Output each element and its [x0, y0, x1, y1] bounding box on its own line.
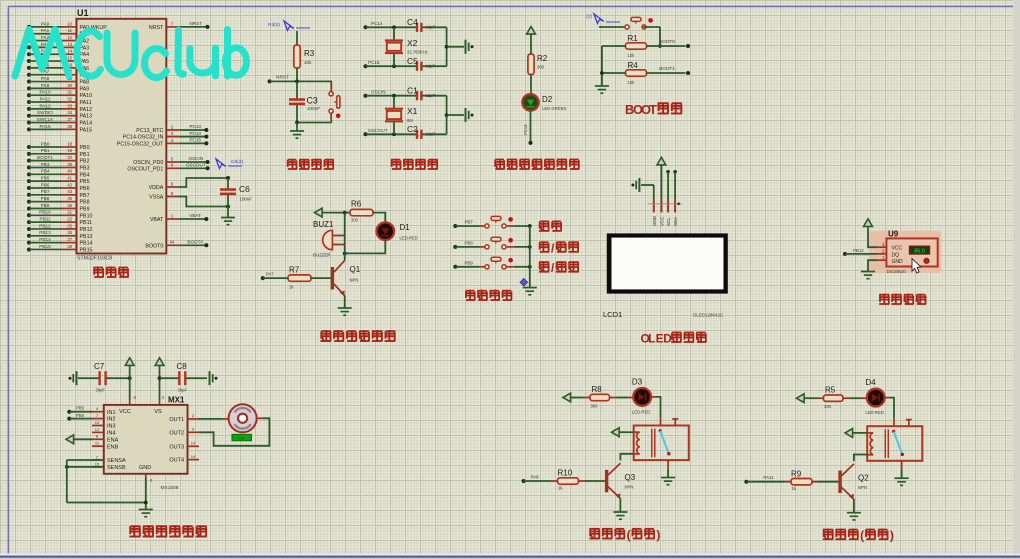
svg-text:GND: GND — [892, 259, 904, 265]
svg-text:C1: C1 — [407, 86, 418, 96]
svg-text:39: 39 — [67, 162, 72, 167]
svg-text:C8: C8 — [177, 362, 188, 371]
svg-text:): ) — [890, 529, 894, 543]
svg-text:PB6: PB6 — [41, 182, 50, 187]
svg-text:100nF: 100nF — [240, 197, 253, 202]
svg-text:NRST: NRST — [276, 75, 289, 81]
svg-text:LED-RED: LED-RED — [632, 410, 650, 415]
svg-text:OSCIN: OSCIN — [371, 89, 386, 94]
svg-text:X2: X2 — [407, 38, 418, 48]
svg-text:28: 28 — [67, 244, 72, 249]
svg-text:300: 300 — [537, 65, 545, 70]
svg-text:T: T — [649, 102, 657, 117]
svg-text:PB5: PB5 — [76, 405, 85, 410]
svg-text:VBAT: VBAT — [150, 217, 164, 223]
svg-text:PA11: PA11 — [40, 96, 51, 101]
svg-text:C2: C2 — [407, 124, 418, 134]
svg-text:C3: C3 — [307, 95, 318, 105]
svg-text:12pF: 12pF — [426, 63, 436, 68]
svg-text:PA13: PA13 — [80, 114, 93, 120]
svg-text:R9: R9 — [791, 469, 802, 478]
svg-text:PB8: PB8 — [80, 200, 90, 206]
svg-text:R3: R3 — [304, 49, 315, 58]
svg-text:C6(2): C6(2) — [231, 159, 243, 165]
svg-text:MX1: MX1 — [168, 396, 185, 405]
svg-text:PC13: PC13 — [523, 124, 528, 135]
svg-text:STM32F103C8: STM32F103C8 — [77, 256, 112, 262]
svg-text:R8: R8 — [592, 385, 603, 394]
svg-text:PA15: PA15 — [80, 127, 93, 133]
svg-text:45: 45 — [67, 196, 72, 201]
svg-text:GND: GND — [139, 465, 151, 471]
svg-text:DS18B20: DS18B20 — [887, 269, 907, 274]
svg-text:PC15: PC15 — [368, 60, 380, 65]
svg-text:PB12: PB12 — [853, 248, 864, 253]
svg-text:IN3: IN3 — [107, 424, 116, 430]
svg-text:C6: C6 — [239, 184, 250, 194]
svg-text:PC13: PC13 — [189, 124, 201, 129]
svg-text:R3(2): R3(2) — [268, 22, 280, 28]
svg-text:BOOT0: BOOT0 — [145, 243, 163, 249]
svg-text:BOOT0: BOOT0 — [659, 39, 675, 44]
svg-text:PB8: PB8 — [41, 196, 50, 201]
svg-text:42: 42 — [67, 182, 72, 187]
svg-text:14: 14 — [67, 49, 72, 54]
svg-text:PB11: PB11 — [39, 217, 51, 222]
svg-text:85.0: 85.0 — [914, 249, 925, 255]
svg-text:PB7: PB7 — [80, 193, 90, 199]
svg-text:ENA: ENA — [107, 437, 119, 443]
svg-text:PB4: PB4 — [41, 169, 50, 174]
svg-text:PB6: PB6 — [80, 186, 90, 192]
svg-text:PB11: PB11 — [80, 220, 93, 226]
svg-text:10: 10 — [95, 420, 100, 425]
svg-text:VCC: VCC — [892, 246, 903, 252]
svg-text:L: L — [648, 332, 655, 346]
svg-text:300: 300 — [824, 404, 832, 409]
svg-text:PB6: PB6 — [76, 413, 85, 418]
svg-text:PB8: PB8 — [464, 241, 473, 246]
svg-text:(1): (1) — [586, 14, 592, 20]
svg-text:R6: R6 — [351, 200, 362, 209]
svg-text:Q3: Q3 — [625, 473, 636, 482]
svg-text:PC14-OSC32_IN: PC14-OSC32_IN — [123, 135, 164, 141]
svg-text:PB14: PB14 — [39, 237, 51, 242]
svg-text:LED-GREEN: LED-GREEN — [542, 106, 566, 111]
svg-text:PA15: PA15 — [39, 124, 51, 129]
svg-text:OSCOUT: OSCOUT — [186, 163, 206, 168]
svg-text:R7: R7 — [289, 266, 300, 275]
svg-text:SWDIO: SWDIO — [37, 110, 53, 115]
svg-text:IN1: IN1 — [107, 410, 116, 416]
svg-text:PA8: PA8 — [531, 474, 540, 479]
svg-text:SWCLK: SWCLK — [37, 117, 55, 122]
svg-text:R4: R4 — [628, 61, 639, 70]
svg-text:PB4: PB4 — [80, 172, 90, 178]
svg-text:OUT3: OUT3 — [169, 444, 184, 450]
svg-text:30pF: 30pF — [178, 388, 188, 393]
svg-text:14: 14 — [191, 454, 196, 459]
svg-text:D: D — [663, 332, 672, 346]
svg-text:43: 43 — [67, 189, 72, 194]
svg-text:C5: C5 — [407, 56, 418, 66]
svg-text:VDDA: VDDA — [149, 185, 164, 191]
svg-text:10k: 10k — [304, 60, 312, 65]
svg-text:15: 15 — [67, 55, 72, 60]
svg-text:VS: VS — [154, 409, 162, 415]
svg-text:10k: 10k — [628, 80, 636, 85]
svg-text:PB5: PB5 — [41, 176, 50, 181]
svg-text:): ) — [656, 528, 660, 542]
svg-text:PB14: PB14 — [80, 241, 93, 247]
svg-text:12: 12 — [95, 427, 100, 432]
svg-text:27: 27 — [67, 237, 72, 242]
svg-text:OSCIN: OSCIN — [189, 156, 204, 161]
svg-text:BUZ1: BUZ1 — [313, 220, 334, 229]
svg-text:IN4: IN4 — [107, 431, 116, 437]
svg-text:PB13: PB13 — [80, 234, 93, 240]
svg-text:NRST: NRST — [189, 21, 202, 26]
svg-text:10k: 10k — [628, 53, 636, 58]
svg-text:OSCOUT: OSCOUT — [368, 128, 388, 133]
svg-text:PA9: PA9 — [41, 83, 50, 88]
svg-text:NPN: NPN — [625, 485, 634, 490]
svg-text:OSCOUT_PD1: OSCOUT_PD1 — [127, 166, 163, 172]
svg-text:OUT1: OUT1 — [169, 417, 184, 423]
svg-text:Q2: Q2 — [858, 474, 869, 483]
svg-text:46: 46 — [67, 203, 72, 208]
svg-text:PB5: PB5 — [80, 179, 90, 185]
svg-text:R5: R5 — [825, 386, 836, 395]
svg-text:PA8: PA8 — [80, 80, 90, 86]
svg-text:13: 13 — [67, 42, 72, 47]
svg-text:DQ: DQ — [892, 252, 900, 258]
svg-text:26: 26 — [67, 230, 72, 235]
svg-text:PB1: PB1 — [80, 152, 90, 158]
svg-text:VSSA: VSSA — [149, 195, 164, 201]
svg-text:37: 37 — [67, 117, 72, 122]
svg-text:ENB: ENB — [107, 444, 119, 450]
svg-text:X1: X1 — [407, 106, 418, 116]
svg-text:33: 33 — [67, 103, 72, 108]
svg-text:300: 300 — [591, 404, 599, 409]
svg-text:PA4: PA4 — [80, 52, 90, 58]
svg-text:PA11: PA11 — [763, 475, 774, 480]
svg-text:PB10: PB10 — [80, 213, 93, 219]
svg-text:LCD1: LCD1 — [603, 310, 622, 319]
svg-text:11: 11 — [68, 28, 73, 33]
svg-text:30: 30 — [67, 83, 72, 88]
svg-text:10: 10 — [67, 21, 72, 26]
svg-text:OUT2: OUT2 — [169, 430, 184, 436]
svg-text:30pF: 30pF — [96, 388, 106, 393]
svg-text:PB15: PB15 — [39, 244, 51, 249]
svg-text:PA9: PA9 — [80, 86, 90, 92]
svg-text:OUT4: OUT4 — [169, 458, 184, 464]
svg-text:PB13: PB13 — [39, 230, 51, 235]
svg-text:PB0: PB0 — [80, 145, 90, 151]
svg-text:C4: C4 — [407, 17, 418, 27]
svg-text:19: 19 — [67, 148, 72, 153]
svg-text:PA0: PA0 — [41, 21, 50, 26]
svg-text:BOOT0: BOOT0 — [187, 240, 203, 245]
svg-text:SCL: SCL — [666, 217, 671, 226]
svg-text:PA12: PA12 — [80, 107, 93, 113]
svg-text:PC15-OSC32_OUT: PC15-OSC32_OUT — [117, 141, 164, 147]
svg-text:BOOT1: BOOT1 — [659, 66, 675, 71]
svg-text:12pF: 12pF — [426, 132, 436, 137]
svg-text:12pF: 12pF — [426, 25, 436, 30]
svg-text:U1: U1 — [77, 8, 89, 18]
svg-text:(: ( — [627, 528, 631, 542]
svg-text:15: 15 — [95, 461, 100, 466]
svg-text:PA11: PA11 — [80, 100, 92, 106]
svg-text:PC14: PC14 — [189, 131, 201, 136]
svg-text:R1: R1 — [628, 34, 639, 43]
svg-text:PB3: PB3 — [80, 165, 90, 171]
svg-text:PB3: PB3 — [41, 162, 50, 167]
svg-text:(: ( — [860, 529, 864, 543]
svg-text:22: 22 — [67, 217, 72, 222]
svg-text:PB9: PB9 — [41, 203, 50, 208]
svg-text:OLED128642C: OLED128642C — [693, 313, 724, 318]
svg-text:PB7: PB7 — [464, 220, 473, 225]
svg-text:PA14: PA14 — [80, 121, 93, 127]
svg-text:PB0: PB0 — [41, 141, 50, 146]
svg-text:PA8: PA8 — [41, 76, 50, 81]
svg-text:PA1: PA1 — [41, 28, 50, 33]
svg-text:13: 13 — [191, 441, 196, 446]
svg-text:D1: D1 — [400, 223, 411, 232]
svg-text:PC13_RTC: PC13_RTC — [136, 128, 163, 134]
svg-text:8M: 8M — [407, 118, 413, 123]
svg-text:PB1: PB1 — [41, 148, 50, 153]
svg-text:12: 12 — [67, 35, 72, 40]
svg-text:LED-RED: LED-RED — [400, 236, 418, 241]
svg-text:PB7: PB7 — [41, 189, 50, 194]
svg-text:PB9: PB9 — [464, 260, 473, 265]
svg-text:PB10: PB10 — [39, 210, 51, 215]
svg-text:41: 41 — [67, 176, 72, 181]
svg-text:BOOT1: BOOT1 — [37, 155, 53, 160]
svg-text:Q1: Q1 — [350, 265, 361, 274]
svg-text:D3: D3 — [632, 378, 643, 387]
svg-text:NRST: NRST — [149, 25, 164, 31]
svg-text:VCC: VCC — [119, 409, 131, 415]
svg-text:mx: mx — [239, 436, 244, 441]
svg-text:R2: R2 — [537, 54, 548, 63]
svg-text:PA10: PA10 — [80, 93, 93, 99]
svg-text:32.768KHz: 32.768KHz — [407, 50, 428, 55]
svg-text:PB15: PB15 — [80, 247, 93, 253]
svg-text:44: 44 — [170, 240, 175, 245]
svg-text:U9: U9 — [888, 230, 899, 239]
svg-text:NPN: NPN — [350, 278, 359, 283]
svg-text:SENSB: SENSB — [107, 465, 126, 471]
svg-text:R10: R10 — [558, 469, 573, 478]
svg-text:25: 25 — [67, 223, 72, 228]
svg-text:38: 38 — [67, 124, 72, 129]
svg-text:BUZZER: BUZZER — [313, 253, 331, 258]
svg-text:32: 32 — [67, 96, 72, 101]
svg-text:PA12: PA12 — [39, 103, 51, 108]
svg-text:GND: GND — [652, 216, 657, 226]
svg-text:IN2: IN2 — [107, 417, 116, 423]
svg-text:OSCIN_PD0: OSCIN_PD0 — [133, 160, 163, 166]
svg-text:D4: D4 — [865, 378, 876, 387]
svg-text:PB9: PB9 — [80, 206, 90, 212]
svg-text:31: 31 — [67, 90, 72, 95]
svg-text:PC14: PC14 — [371, 21, 383, 26]
svg-text:D2: D2 — [542, 95, 553, 104]
svg-text:VCC: VCC — [659, 217, 664, 226]
svg-text:C7: C7 — [94, 362, 105, 371]
svg-text:20: 20 — [67, 155, 72, 160]
svg-text:300: 300 — [351, 218, 359, 223]
svg-text:PB2: PB2 — [80, 159, 90, 165]
svg-text:PA10: PA10 — [39, 90, 51, 95]
svg-text:100nF: 100nF — [307, 106, 320, 111]
svg-text:40: 40 — [67, 169, 72, 174]
svg-text:PB12: PB12 — [39, 223, 51, 228]
svg-text:PC15: PC15 — [189, 138, 201, 143]
svg-text:21: 21 — [67, 210, 72, 215]
svg-text:VBAT: VBAT — [189, 213, 201, 218]
svg-text:SENSA: SENSA — [107, 458, 126, 464]
svg-text:LED-RED: LED-RED — [865, 410, 883, 415]
svg-text:PA7: PA7 — [266, 271, 274, 276]
svg-text:MX1508: MX1508 — [161, 485, 179, 491]
svg-text:18: 18 — [67, 141, 72, 146]
svg-text:12pF: 12pF — [426, 93, 436, 98]
svg-text:PB12: PB12 — [80, 227, 93, 233]
svg-text:34: 34 — [67, 110, 72, 115]
svg-text:SDA: SDA — [673, 217, 678, 226]
svg-text:NPN: NPN — [858, 485, 867, 490]
